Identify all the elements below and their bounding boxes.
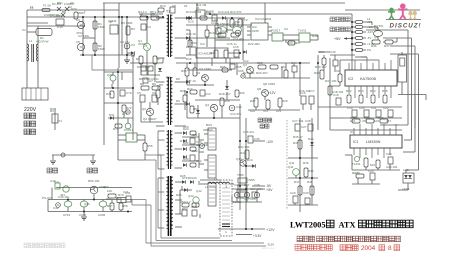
svg-text:C36: C36	[234, 183, 240, 187]
wire y180 top	[200, 179, 220, 181]
svg-text:IC1: IC1	[353, 140, 358, 144]
svg-text:C5027: C5027	[138, 42, 147, 46]
svg-text:BD1: BD1	[57, 1, 63, 5]
extra sec part r70a	[222, 68, 228, 72]
extra t1 right parts	[186, 16, 189, 20]
wire oval stems	[67, 200, 69, 202]
svg-text:+: +	[84, 9, 86, 13]
extra part top b	[170, 7, 175, 13]
svg-text:R55: R55	[147, 144, 153, 148]
svg-text:L3 toroid: L3 toroid	[205, 185, 217, 189]
capacitor C27	[295, 124, 300, 131]
pwm pin top wires	[340, 59, 379, 61]
svg-text:2R2: 2R2	[218, 35, 224, 39]
svg-text:C29: C29	[290, 191, 296, 195]
wire ic2 pins	[247, 26, 251, 28]
svg-text:KA7500B: KA7500B	[360, 77, 377, 81]
extra prim part	[143, 78, 148, 83]
svg-text:R44 150: R44 150	[238, 145, 250, 149]
label shidian	[24, 129, 36, 135]
svg-text:F1: F1	[30, 5, 34, 9]
resistor R26	[270, 65, 278, 69]
svg-text:10K: 10K	[107, 189, 112, 193]
wire T3 stubs	[158, 130, 165, 132]
resistor R56	[108, 194, 116, 198]
wire +5V loop top y=30	[366, 29, 408, 31]
diode D23	[183, 155, 186, 159]
wire x=95 divider	[94, 17, 96, 55]
wire harness row3 ext	[132, 204, 151, 206]
resistor R16	[193, 68, 197, 76]
svg-text:D13: D13	[247, 158, 253, 162]
resistor R30	[320, 70, 324, 79]
thermistor NTC	[74, 12, 78, 19]
resistor R37	[385, 40, 393, 44]
wire q1	[146, 17, 148, 43]
optocoupler U4	[272, 33, 283, 41]
extra part pwmleft	[338, 74, 342, 82]
ref TL431 U5	[299, 33, 310, 42]
svg-text:D10: D10	[188, 20, 194, 24]
svg-text:+5V: +5V	[334, 37, 341, 41]
aux box outline	[91, 55, 93, 70]
transistor Q15 oval	[99, 201, 107, 207]
resistor R12	[200, 16, 207, 20]
ecap C37	[244, 192, 249, 197]
svg-text:C28: C28	[305, 119, 311, 123]
wire x=85 bulk	[82, 17, 84, 55]
svg-text:C25 47u: C25 47u	[243, 130, 255, 134]
ecap C38	[254, 192, 259, 197]
svg-text:R30: R30	[312, 34, 318, 38]
wire sec3 bus	[198, 133, 200, 168]
svg-text:Q11: Q11	[288, 165, 294, 169]
connector pinbox 1	[208, 128, 216, 150]
svg-text:C6: C6	[152, 91, 156, 95]
svg-text:R27: R27	[250, 99, 256, 103]
svg-text:C7: C7	[149, 79, 153, 83]
svg-text:R13 47K: R13 47K	[230, 10, 242, 14]
watermark text	[24, 243, 65, 248]
connector output dashed box	[220, 180, 232, 236]
resistor R7	[153, 56, 157, 64]
wire cap stubs	[236, 189, 238, 192]
wire +5V rail y189	[232, 188, 265, 190]
transistor Q1	[143, 43, 150, 50]
resistor R9	[152, 86, 160, 90]
wire led	[405, 170, 407, 173]
svg-text:ATX: ATX	[339, 221, 356, 230]
wire r55	[144, 135, 146, 143]
resistor R34	[371, 95, 375, 103]
lm339 top pins	[354, 124, 396, 135]
junction m	[245, 140, 247, 142]
resistor R51	[190, 147, 196, 151]
wire y118	[330, 117, 345, 119]
diode D31	[110, 116, 113, 120]
resistor R17	[190, 90, 197, 94]
svg-text:dzsc.com: dzsc.com	[262, 246, 275, 250]
wire x=265 drop	[264, 3, 266, 23]
wire y78	[245, 77, 310, 79]
svg-text:C8: C8	[172, 4, 176, 8]
svg-text:C37: C37	[244, 183, 250, 187]
wire y107 long	[318, 106, 402, 108]
svg-text:+5V: +5V	[266, 188, 273, 192]
svg-text:HDCR-W: HDCR-W	[36, 40, 49, 44]
extra wires primary	[140, 71, 142, 75]
svg-text:R16 1K: R16 1K	[186, 32, 196, 36]
extra sec hwires	[187, 69, 232, 71]
regulator 79L05 body	[238, 178, 247, 183]
svg-text:R35: R35	[382, 89, 388, 93]
capacitor C19	[352, 110, 357, 117]
wire +12V loop top y=38	[383, 37, 412, 39]
svg-text:R7: R7	[157, 57, 161, 61]
svg-text:471: 471	[57, 119, 62, 123]
IC3 box	[196, 48, 228, 58]
wire sec mid	[186, 63, 188, 68]
wire t4sec	[179, 190, 181, 214]
svg-text:R64: R64	[193, 107, 199, 111]
svg-text:C22: C22	[383, 106, 389, 110]
resistor R28	[266, 100, 270, 109]
transformer T1 core	[167, 15, 169, 58]
resistor R25	[258, 65, 266, 69]
resistor R36	[372, 40, 380, 44]
pwm top staircase	[330, 54, 355, 56]
svg-text:TL431: TL431	[352, 162, 361, 166]
wire bulk bottom y=55	[80, 54, 135, 56]
svg-text:C18 104: C18 104	[332, 90, 344, 94]
svg-text:IC3: IC3	[200, 42, 205, 46]
connector pinbox 2	[208, 155, 216, 178]
svg-text:C71: C71	[122, 112, 128, 116]
label jicheng liulu	[330, 17, 350, 22]
capacitor C2 bulk	[77, 43, 84, 50]
logo figure pink	[398, 4, 407, 20]
label shuangxing	[258, 118, 272, 122]
svg-text:R22: R22	[210, 51, 216, 55]
capacitor C29	[293, 196, 298, 203]
svg-text:C945: C945	[98, 213, 106, 217]
resistor R38	[352, 119, 360, 123]
wire col x300b	[299, 118, 301, 212]
svg-text:C20: C20	[359, 106, 365, 110]
svg-text:R56 10K: R56 10K	[88, 179, 100, 183]
svg-text:Q15: Q15	[84, 202, 90, 206]
ground pri	[124, 60, 130, 63]
capacitor C10	[212, 15, 217, 21]
wire harness v1	[145, 200, 147, 244]
rectifier bridge D1-D4	[57, 7, 69, 17]
wire drive low	[216, 57, 240, 59]
capacitor C40 green	[55, 183, 60, 189]
svg-text:C23: C23	[386, 152, 392, 156]
wire harness v3	[155, 160, 157, 241]
wire col x246	[245, 118, 247, 230]
extra sec part r66	[235, 90, 239, 97]
wire secondary y=63	[176, 62, 310, 64]
transformer T1 primary winding	[167, 15, 169, 56]
svg-text:R29: R29	[282, 99, 288, 103]
pwm top pins	[349, 57, 391, 70]
svg-text:Q2: Q2	[142, 107, 146, 111]
wire sec top rows	[186, 17, 245, 19]
svg-text:0165: 0165	[252, 29, 259, 33]
optocoupler U7	[126, 133, 137, 142]
transformer T3 secondary winding	[171, 131, 173, 165]
capacitor C21	[376, 110, 381, 117]
resistor R24	[288, 41, 295, 45]
svg-text:C45: C45	[330, 50, 336, 54]
svg-text:Q12: Q12	[196, 189, 202, 193]
svg-text:C15 1n: C15 1n	[227, 42, 237, 46]
svg-text:C40 10u: C40 10u	[58, 195, 70, 199]
svg-text:U5: U5	[296, 41, 300, 45]
transistor Q7	[247, 67, 254, 74]
ecap C13	[229, 105, 235, 111]
svg-text:D22: D22	[183, 141, 189, 145]
svg-text:T2: T2	[244, 18, 248, 22]
junction ctl	[93, 199, 95, 201]
svg-text:R73: R73	[113, 127, 119, 131]
capacitor C5	[140, 95, 145, 102]
svg-text:IC2: IC2	[348, 77, 353, 81]
resistor R46	[304, 168, 308, 177]
svg-text:C41: C41	[123, 190, 129, 194]
credit line huitu	[295, 245, 332, 251]
ground ctl	[83, 212, 85, 217]
svg-text:C2 330u: C2 330u	[78, 34, 90, 38]
transistor Q21 green	[125, 123, 131, 129]
resistor R3	[126, 26, 130, 35]
pwm bottom pins	[349, 86, 391, 98]
svg-text:472: 472	[263, 109, 268, 113]
credit time	[340, 245, 358, 251]
wire ctl row3	[48, 211, 132, 213]
wire loop return y=170	[406, 169, 419, 171]
junction dots bulk	[82, 16, 84, 18]
svg-text:R32: R32	[346, 89, 352, 93]
resistor R6	[139, 56, 143, 64]
transformer T2 secondary winding	[171, 78, 173, 122]
svg-text:C5: C5	[137, 91, 141, 95]
wire long feedback y=14	[204, 13, 352, 15]
svg-text:Q12: Q12	[188, 194, 194, 198]
svg-text:Q16: Q16	[103, 185, 109, 189]
ecap C42	[56, 203, 61, 208]
wire T4 stubs	[158, 177, 164, 179]
extra sec part d30	[225, 86, 229, 89]
varistor RV1	[54, 108, 56, 130]
resistor R41	[364, 158, 368, 167]
extra lm row	[345, 154, 352, 156]
extra sec parts a	[205, 30, 209, 37]
resistor R4	[140, 16, 148, 20]
svg-text:C25: C25	[254, 137, 260, 141]
extra pwm part a	[322, 58, 326, 65]
resistor R73	[115, 124, 122, 128]
extra wire mid2	[285, 63, 287, 70]
wire y=10 left	[27, 9, 119, 11]
resistor R31	[328, 86, 332, 95]
svg-text:C30: C30	[303, 191, 309, 195]
wire x300	[299, 63, 301, 96]
capacitor C17	[309, 96, 314, 104]
svg-text:LM339N: LM339N	[366, 140, 381, 144]
connector pinbox 3	[208, 183, 216, 206]
comparator IC1 LM339N box	[350, 135, 402, 148]
logo figure tan 2	[413, 11, 417, 19]
svg-text:PC817: PC817	[271, 29, 281, 33]
wire col x240	[239, 130, 241, 210]
svg-text:F1 5A: F1 5A	[43, 4, 51, 8]
transistor Q6	[233, 27, 242, 34]
wire y=10 right	[345, 9, 420, 11]
resistor R55	[143, 143, 147, 151]
svg-text:R30: R30	[314, 71, 320, 75]
credit line shuoming	[297, 236, 315, 242]
svg-text:LWT2005: LWT2005	[290, 221, 326, 230]
svg-text:C3: C3	[131, 43, 135, 47]
resistor R50	[190, 131, 196, 135]
wire prim mid	[140, 63, 142, 75]
resistor R21	[231, 33, 239, 37]
svg-text:R47: R47	[294, 180, 300, 184]
svg-text:7905: 7905	[248, 178, 255, 182]
svg-text:D2: D2	[68, 5, 72, 9]
wire opto	[283, 34, 299, 36]
transformer T3 primary winding	[167, 131, 169, 165]
wire sec low	[186, 92, 188, 118]
wire harness link opto	[145, 159, 156, 161]
svg-text:NTC: NTC	[71, 7, 78, 11]
resistor harness R70	[117, 198, 126, 203]
driver IC2 box	[251, 23, 268, 40]
inductor L4 output branch	[352, 31, 356, 33]
capacitor C3	[124, 43, 130, 49]
wire toroid	[198, 181, 200, 183]
capacitor C4	[141, 24, 146, 30]
svg-text:BUS: BUS	[206, 123, 212, 127]
capacitor C34	[182, 210, 187, 216]
svg-text:R11 1M: R11 1M	[196, 3, 207, 7]
svg-text:C26 100u: C26 100u	[250, 187, 263, 191]
wire ctl row1	[56, 187, 132, 189]
capacitor C35	[192, 210, 197, 216]
resistor R22	[214, 50, 218, 58]
svg-text:LED1: LED1	[402, 187, 410, 191]
connector JP1	[110, 25, 118, 34]
svg-text:D9: D9	[176, 99, 180, 103]
wire mid y38 jog	[83, 37, 95, 39]
extra sec parts b	[216, 28, 221, 34]
wire left col t3	[157, 131, 159, 169]
wire prim low	[149, 102, 151, 108]
wire x=119 frame	[118, 3, 120, 68]
connector bar	[222, 223, 230, 225]
title cjk main	[359, 220, 414, 228]
capacitor C30	[305, 198, 310, 204]
svg-text:C24: C24	[368, 169, 374, 173]
transistor Q5	[218, 27, 227, 34]
wire 33 rows	[288, 157, 318, 159]
svg-text:C23 104: C23 104	[386, 165, 398, 169]
resistor R54	[192, 203, 199, 207]
wire aux stubs	[112, 72, 114, 75]
svg-text:C34: C34	[191, 205, 197, 209]
transistor Q12	[193, 197, 199, 203]
transformer T4 secondary winding	[171, 177, 173, 229]
svg-text:R3: R3	[131, 27, 135, 31]
capacitor C31	[190, 138, 195, 144]
resistor R48	[310, 186, 314, 195]
svg-text:R39: R39	[364, 116, 370, 120]
label lengdi	[87, 168, 98, 173]
resistor R29	[278, 98, 282, 107]
wire col x312	[311, 118, 313, 205]
capacitor C1 bulk	[77, 21, 84, 28]
resistor R40	[380, 119, 388, 123]
resistor R18	[220, 98, 224, 106]
relay box top right	[398, 55, 407, 82]
svg-text:R58: R58	[122, 204, 128, 208]
svg-text:R15: R15	[181, 69, 187, 73]
wire ctl left vert	[47, 200, 49, 212]
svg-text:DISCUZ!: DISCUZ!	[390, 23, 422, 30]
wire T1 stubs	[156, 17, 165, 19]
svg-text:C26: C26	[250, 197, 256, 201]
lm339 bottom pins	[354, 148, 390, 158]
zener ZD1	[196, 110, 200, 113]
svg-text:R40: R40	[378, 116, 384, 120]
resistor R45	[298, 140, 302, 149]
wire opto2	[118, 134, 126, 136]
wire y94 right	[398, 94, 426, 96]
extra sec ecap	[241, 74, 245, 78]
capacitor C28	[308, 124, 313, 131]
transformer T1 secondary winding	[171, 15, 173, 56]
svg-text:C31: C31	[192, 133, 198, 137]
resistor R33	[359, 95, 363, 103]
svg-text:PG: PG	[367, 48, 371, 52]
svg-text:8: 8	[388, 245, 392, 252]
extra sec wires	[206, 25, 208, 30]
transistor Q16	[90, 186, 98, 194]
wire AC lower y=26	[27, 25, 85, 27]
capacitor C22	[388, 110, 393, 117]
wire loop x=411	[414, 46, 416, 152]
resistor R20	[218, 33, 226, 37]
resistor R35	[383, 95, 387, 103]
svg-text:C13 47u: C13 47u	[230, 112, 242, 116]
wire loop x=404	[411, 38, 413, 140]
svg-text:471: 471	[386, 119, 391, 123]
transistor Q14 oval	[80, 201, 88, 207]
svg-text:Q20: Q20	[107, 73, 113, 77]
capacitor C32	[190, 155, 195, 161]
resistor R44	[245, 150, 249, 159]
wire top loop y=3	[103, 2, 345, 4]
resistor R1	[93, 21, 97, 29]
svg-text:C19: C19	[347, 106, 353, 110]
capacitor CX1	[56, 19, 64, 25]
svg-text:IC2 KA3843: IC2 KA3843	[255, 17, 272, 21]
svg-text:R57: R57	[106, 197, 112, 201]
svg-text:102: 102	[250, 109, 255, 113]
wire pinbox stubs	[204, 133, 208, 135]
